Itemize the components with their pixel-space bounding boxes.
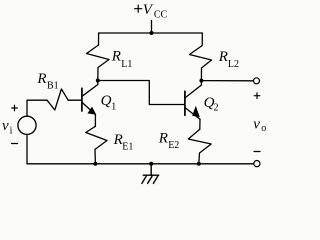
wire top supply rail: [99, 32, 203, 34]
terminal output minus: [254, 161, 260, 167]
label +Vcc: [135, 5, 142, 12]
svg-text:1: 1: [111, 101, 116, 112]
svg-text:L1: L1: [121, 59, 132, 70]
wire source bottom: [26, 135, 28, 164]
resistor RL1: [87, 33, 110, 81]
wire Q2 emitter down: [199, 119, 201, 129]
svg-text:R: R: [218, 49, 228, 65]
source vi circle: [18, 116, 36, 134]
terminal output plus: [254, 78, 260, 84]
node Q2 collector junction: [199, 79, 203, 83]
svg-text:Q: Q: [101, 93, 112, 109]
svg-text:i: i: [10, 126, 13, 137]
resistor RE2: [188, 129, 211, 164]
wire interstage (Q1 collector to Q2 base): [98, 81, 185, 105]
label output minus: [254, 151, 260, 153]
node Q1 collector junction: [96, 79, 100, 83]
label output plus: [254, 93, 260, 99]
label source minus: [12, 143, 18, 145]
svg-text:R: R: [113, 132, 123, 148]
svg-text:R: R: [111, 49, 121, 65]
svg-text:v: v: [253, 117, 260, 133]
node RE1 bottom junction: [93, 162, 97, 166]
wire bottom rail: [27, 163, 254, 165]
svg-text:v: v: [2, 118, 9, 134]
resistor RE1: [86, 126, 107, 164]
node Vcc junction: [150, 31, 154, 35]
svg-text:B1: B1: [47, 81, 59, 92]
node ground junction: [149, 162, 153, 166]
svg-text:R: R: [36, 71, 46, 87]
resistor RB1: [47, 89, 68, 110]
wire output top: [201, 80, 253, 82]
svg-text:2: 2: [214, 103, 219, 114]
svg-text:L2: L2: [228, 59, 239, 70]
wire RB1 to Q1 base: [68, 99, 81, 101]
svg-text:E2: E2: [168, 140, 179, 151]
wire base Q1 from source: [27, 100, 47, 116]
ground: [142, 164, 159, 184]
wire Vcc stub: [151, 21, 153, 34]
svg-text:R: R: [158, 130, 168, 146]
svg-text:E1: E1: [122, 142, 133, 153]
transistor Q2: [185, 81, 202, 120]
resistor RL2: [190, 33, 212, 81]
label source plus: [12, 105, 18, 111]
node RE2 bottom junction: [197, 162, 201, 166]
transistor Q1: [82, 81, 98, 115]
wire Q1 emitter down: [94, 115, 96, 127]
svg-text:o: o: [261, 123, 266, 134]
svg-text:CC: CC: [154, 10, 168, 21]
